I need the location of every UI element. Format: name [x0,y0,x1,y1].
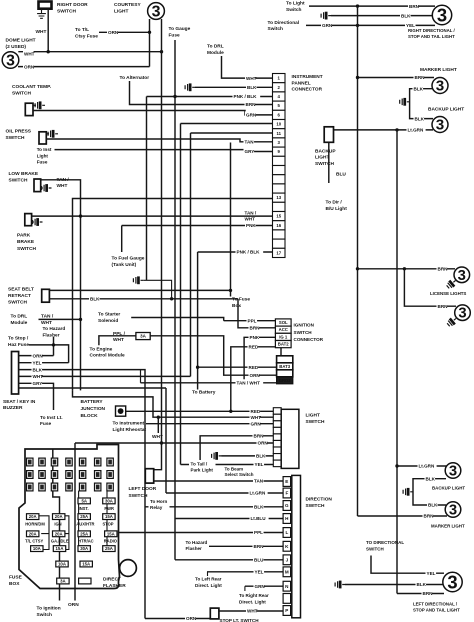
svg-text:BACKUP LIGHT: BACKUP LIGHT [428,107,464,113]
svg-text:YEL: YEL [255,462,264,467]
label WHT dome [23,50,34,57]
wire to fuel gauge vertical [121,226,123,253]
wire RED to BAT2 [231,347,276,412]
wire battery to light switch RED [126,410,274,412]
bars park brake switch [33,218,43,226]
wire vertical pin17 to battery [197,252,199,390]
svg-text:STOP: STOP [102,521,113,526]
svg-text:25A: 25A [80,514,88,519]
label TAN dir E [253,477,264,484]
seat belt retract switch [42,289,50,302]
wire vertical to ignition switch (thru fuse box) [53,449,60,601]
junction TAN/WHT to DRL [79,318,82,321]
svg-text:Lt.GRN: Lt.GRN [250,491,267,496]
wire BRN license lower branch [404,269,456,306]
wire RED to BAT3 [198,366,277,368]
svg-text:GRY: GRY [245,149,255,154]
wire 3A to ignition vertical [150,336,276,375]
ignition switch connector upper block [275,319,291,348]
label ORN buzzer [32,352,43,359]
svg-text:P: P [285,608,288,613]
backup light switch [324,127,333,143]
svg-text:BRN: BRN [438,267,449,272]
fuse box contact squares grid [27,458,114,491]
wire right side vertical VR2 [396,130,398,594]
svg-text:BLK: BLK [415,116,425,121]
wire courtesy light right lead WHT (long, to left door switch) [154,19,162,470]
direction switch connector body [292,475,301,617]
svg-text:10A: 10A [33,546,41,551]
wire to starter solenoid [131,318,224,321]
svg-text:WHT: WHT [36,29,47,35]
junction RED / BAT2 vertical [229,410,232,413]
wire ORN to light switch [75,442,273,444]
svg-text:To Alternator: To Alternator [120,75,150,81]
svg-text:AUX/HTR: AUX/HTR [76,521,94,526]
svg-text:STOP LT. SWITCH: STOP LT. SWITCH [220,618,260,622]
ground light switch BLK [212,452,222,460]
svg-text:BRN: BRN [254,434,265,439]
wire vertical PNK/BLK net [146,97,148,281]
label BRN license upper [437,265,448,272]
label BRN marker [414,74,425,81]
wire to stop haz fuse [29,345,69,363]
svg-text:BRN: BRN [423,591,434,596]
wire pin4 PNK/BLK [147,96,273,98]
svg-text:BLK: BLK [254,505,264,510]
svg-text:BLK: BLK [414,86,424,91]
direction switch connector cells [283,477,291,616]
fuse box outline [19,445,120,589]
svg-text:10: 10 [276,122,281,127]
label RED ign [248,343,259,350]
svg-text:3: 3 [6,52,15,69]
svg-text:GRN: GRN [246,113,257,118]
label YEL lsw [254,461,265,468]
label Lt.GRN backup lower [418,462,437,469]
wire pin16 PNK [122,225,273,227]
junction BLK ground tap [170,297,173,300]
svg-text:To Right RearDirect. Light: To Right RearDirect. Light [239,593,269,604]
svg-text:GA./IDLE: GA./IDLE [51,539,69,544]
svg-text:GRN: GRN [251,421,262,426]
wire BLK left dir [345,584,443,586]
svg-text:BRN: BRN [424,514,435,519]
label WHT dir P [246,607,257,614]
wire courtesy light left lead [149,19,151,67]
direct flasher circle [120,560,137,577]
svg-text:PWR: PWR [104,506,114,511]
wire TAN/WHT to GRD2 [141,382,277,384]
wire BRN to ACC [238,299,275,328]
junction license VR1 [356,267,359,270]
svg-text:WHT: WHT [33,374,44,379]
wire BLK right directional [331,15,432,17]
label TAN / WHT grd2 [236,379,264,386]
svg-text:BRN: BRN [438,304,449,309]
svg-text:BLK: BLK [247,85,257,90]
label BRN license lower [437,303,448,310]
svg-text:YEL: YEL [33,360,42,365]
label ORN dome [23,63,34,70]
label ORN ign [249,372,260,379]
svg-text:ORN: ORN [258,441,269,446]
svg-text:3: 3 [436,117,444,134]
label To Tail / Park Light [189,460,216,474]
wire BLU from backup light switch [328,142,330,183]
svg-text:20A: 20A [55,531,63,536]
svg-text:BRN: BRN [254,544,265,549]
svg-text:3: 3 [449,503,457,519]
wire Lt GRN backup [334,129,434,131]
license light (lower) [455,305,471,322]
wire hazard flasher down [53,337,55,356]
wire PPL/WHT to 3A [99,336,136,346]
ground seat belt area [133,276,143,284]
junction LtGRN right vertical VR2 [395,128,398,131]
svg-text:To Battery: To Battery [192,389,216,395]
wire buzzer ORN [19,355,54,357]
label WHT lsw [250,414,261,421]
svg-text:HORN/DM: HORN/DM [25,521,45,526]
wire pin10 [181,123,273,125]
svg-text:WHT: WHT [24,52,35,57]
svg-text:LICENSE LIGHTS: LICENSE LIGHTS [430,291,466,296]
bars oil press switch [48,130,58,138]
wire F net vertical [165,388,167,493]
junction BRN right vertical [356,4,359,7]
wire BRN left dir [397,593,444,595]
label TAN pin3 [244,138,255,145]
low brake switch [34,179,41,192]
label WHT pin1 [245,75,256,82]
svg-text:Lt.GRN: Lt.GRN [408,128,425,133]
wire coolant switch to bars [33,104,36,106]
fuse box fuses [25,498,118,584]
wire BRN marker [358,77,435,79]
svg-text:E: E [285,479,288,484]
wire WHT to P [219,610,283,612]
junction pin4 gauge fuse [173,95,176,98]
svg-text:3: 3 [458,268,466,284]
svg-text:GRN: GRN [322,23,333,28]
wire GRN-YEL right directional [306,24,435,26]
wire BRN to K [209,545,283,547]
right directional / stop and tail light [432,4,451,25]
label BLK marker lower [427,501,438,508]
ground license upper [445,278,458,290]
svg-text:IG 1: IG 1 [279,334,288,339]
wire vertical pin3 / to fuse box [230,143,232,297]
left door switch [145,469,153,483]
junction seat belt / fuse box wire [229,289,232,292]
marker light (lower) [445,502,461,519]
wire pin11 [191,132,273,134]
svg-text:10A: 10A [58,562,66,567]
wire pin15 tail [272,215,274,217]
wire YEL to M [207,571,283,573]
svg-text:Lt.BLU: Lt.BLU [251,516,267,521]
svg-text:ORN: ORN [68,602,79,608]
svg-text:20A: 20A [55,514,63,519]
wire pin17 PNK/BLK [198,251,273,253]
svg-text:BRN: BRN [250,326,261,331]
ground left directional [335,581,345,589]
wire seat belt BLK [49,298,238,300]
label PNK pin16 [245,222,256,229]
label YEL dir M [254,568,265,575]
junction ORN ctsy [148,31,151,34]
label GRY pin9 [244,148,255,155]
svg-text:15: 15 [276,214,281,219]
svg-text:ORN: ORN [108,30,119,35]
label BLU dir J [253,556,264,563]
svg-text:BLK: BLK [256,454,266,459]
wire BLK marker to ground [410,89,433,119]
wire GRN to N [245,585,283,587]
wire BLK backup lower [413,479,446,505]
label YEL buzzer [32,359,43,366]
svg-text:17: 17 [276,250,281,255]
label BLK backup lower [425,475,436,482]
wire To DRL TAN/WHT [39,318,81,320]
svg-text:16: 16 [276,223,281,228]
svg-text:RADIO: RADIO [104,539,118,544]
wire buzzer WHT [19,375,191,377]
svg-text:RED: RED [249,365,259,370]
svg-text:3: 3 [458,306,466,322]
svg-text:15A: 15A [105,514,113,519]
label BRN marker lower [423,512,434,519]
label PPL dir L [253,529,264,536]
wire park brake bars stub [32,221,34,223]
svg-text:YEL: YEL [427,571,436,576]
wire ORN dome light [18,66,150,68]
label RED lsw [250,408,261,415]
label GRN right dir [321,22,332,29]
label BLK dir G [253,503,264,510]
wire BRN license upper [358,268,456,270]
wire PNK to IG1 [244,337,275,383]
svg-text:ORN: ORN [250,373,261,378]
park brake switch [25,214,32,226]
light switch connector body [281,409,299,468]
bars low brake switch [42,184,52,192]
svg-text:PNK / BLK: PNK / BLK [237,250,261,255]
junction WHT lsw stub [157,416,160,419]
wire To Alternator to pin5 BRN [130,81,273,105]
svg-text:GRY: GRY [33,381,43,386]
svg-text:BLK: BLK [428,503,438,508]
svg-text:3: 3 [437,4,447,25]
stop light switch [210,608,219,619]
label BLK right dir [400,12,411,19]
wire BLU to J [175,559,283,561]
label BRN ign [249,324,260,331]
svg-text:15A: 15A [107,531,115,536]
svg-text:J: J [286,557,289,562]
junction WHT lead / ORN light switch wire [160,441,163,444]
wire buzzer lower wire to F net [19,387,166,389]
wire buzzer GRY [19,383,54,410]
junction RED BAT3 [196,366,199,369]
light switch connector [273,408,281,467]
wire vertical ORN (thru fuse box) [74,443,76,601]
svg-text:20A: 20A [29,531,37,536]
wire TAN/WHT low brake [41,180,81,391]
svg-text:BLK: BLK [417,582,427,587]
ground backup/marker lower [403,488,413,496]
junction TAN/WHT vertical [79,214,82,217]
wire To DRL Module down to pin1 [222,56,273,78]
label YEL left dir [426,570,437,577]
battery junction block [116,406,126,416]
svg-text:13: 13 [276,195,281,200]
svg-text:HTR/AC: HTR/AC [78,539,94,544]
svg-text:F: F [285,491,288,496]
label BRN pin5 [245,101,256,108]
wire right side vertical VR1 [357,6,359,516]
wire YEL to light switch [181,464,274,466]
svg-text:BRN: BRN [409,4,420,9]
svg-text:WHT: WHT [247,609,258,614]
svg-text:WHT: WHT [251,415,262,420]
svg-text:T/L CTSY: T/L CTSY [25,539,43,544]
svg-text:ORN: ORN [24,65,35,70]
oil press switch [39,132,46,144]
svg-text:BLU: BLU [336,172,346,178]
wire BRN to right directional [309,5,435,7]
svg-text:MARKER LIGHT: MARKER LIGHT [431,524,465,529]
label GRN pin6 [245,111,256,118]
svg-text:3A: 3A [60,579,66,584]
svg-text:15A: 15A [56,546,64,551]
wire low brake bars stub [41,187,43,189]
label GRY buzzer [32,380,43,387]
junction dome WHT / right door [47,50,50,53]
svg-text:5A: 5A [81,498,87,503]
label GRN dir N [254,583,265,590]
wire seat belt top to fuse box label [49,289,230,291]
wire vertical pin10/YEL net [180,124,182,465]
wire stub to right rear [244,586,246,591]
svg-text:30A: 30A [80,546,88,551]
wire WHT stub down [157,417,159,433]
wire ignition connector stem [280,348,282,356]
wire To Gauge Fuse (long vertical) [174,40,176,560]
wire Lt BLU to H [175,518,283,520]
svg-text:TAN / WHT: TAN / WHT [237,381,261,386]
wire right door switch to ground [41,9,43,11]
svg-text:25A: 25A [80,531,88,536]
wire pin13 down to WHT lsw [73,390,274,417]
label BLK buzzer [32,366,43,373]
label ORN lsw [257,439,268,446]
svg-text:WHT: WHT [246,76,257,81]
license light (upper) [454,267,470,284]
svg-text:BLK: BLK [401,13,411,18]
junction stop/haz [52,343,55,346]
coolant temp switch [25,103,33,115]
svg-text:PPL: PPL [248,318,257,323]
backup light (lower) [445,463,461,480]
fuse box internal links column brackets [39,516,49,550]
label PNK / BLK pin4 [233,93,261,100]
svg-text:3A: 3A [140,334,147,339]
marker light (top) [432,78,448,95]
svg-text:PPL: PPL [254,530,263,535]
courtesy light [148,3,165,21]
svg-text:WHT: WHT [152,434,163,440]
wire pin13 from left [73,199,273,391]
svg-text:BACKUP LIGHT: BACKUP LIGHT [432,485,465,490]
wire coolant temp to pin6 GRN [33,111,273,115]
ground right door switch [37,11,46,18]
junction license branch [403,267,406,270]
svg-text:30A: 30A [105,498,113,503]
ground right directional [321,12,331,20]
label BLK seat belt [89,295,100,302]
svg-text:RIGHT DIRECTIONAL /STOP AND TA: RIGHT DIRECTIONAL /STOP AND TAIL LIGHT [408,28,456,39]
label WHT buzzer [32,373,43,380]
wire BLK to light switch [222,455,274,457]
svg-text:M: M [285,569,289,574]
junction marker BRN [356,76,359,79]
wire ORN to stop switch [145,618,210,620]
ground license lower [446,315,459,327]
wire ground to BLK junction [143,280,171,299]
svg-text:LEFT DIRECTIONAL /STOP AND TAI: LEFT DIRECTIONAL /STOP AND TAIL LIGHT [413,602,460,613]
svg-text:PNK: PNK [250,335,260,340]
svg-text:3: 3 [447,571,457,592]
label BRN left dir [422,590,433,597]
svg-text:YEL: YEL [255,570,264,575]
svg-text:25A: 25A [105,546,113,551]
label Lt.GRN dir F [249,489,268,496]
wire oil press to pin3 TAN [46,139,272,142]
svg-text:PNK / BLK: PNK / BLK [234,94,258,99]
svg-text:15A: 15A [82,562,90,567]
svg-text:L: L [285,530,288,535]
svg-text:BLK: BLK [33,367,43,372]
bars coolant switch [35,101,45,109]
label RED bat3 [248,364,259,371]
svg-text:ORN: ORN [33,353,44,358]
junction WHT / courtesy light lead [160,50,163,53]
svg-text:11: 11 [276,131,281,136]
ground pin2 [185,83,195,91]
wire to directional stub [371,556,444,574]
svg-text:G: G [285,503,289,508]
svg-text:20A: 20A [29,514,37,519]
label YEL right dir [405,22,416,29]
wire to inst light fuse to pin9 GRY [55,150,273,152]
backup light (upper) [432,117,448,134]
right door switch RD1 [39,2,52,9]
svg-text:TAN: TAN [245,140,255,145]
wire Lt GRN to F [166,492,283,494]
label PNK / BLK pin17 [236,248,264,255]
svg-text:BLK: BLK [426,476,436,481]
svg-text:RED: RED [251,409,261,414]
svg-text:INST.: INST. [79,506,89,511]
label BRN right dir [408,3,419,10]
label BLK lsw [255,452,266,459]
svg-text:GRD2: GRD2 [279,378,292,383]
wire park brake to pin15 TAN/WHT [32,215,273,217]
svg-text:3: 3 [436,78,444,95]
wire BRN marker lower [358,515,448,517]
